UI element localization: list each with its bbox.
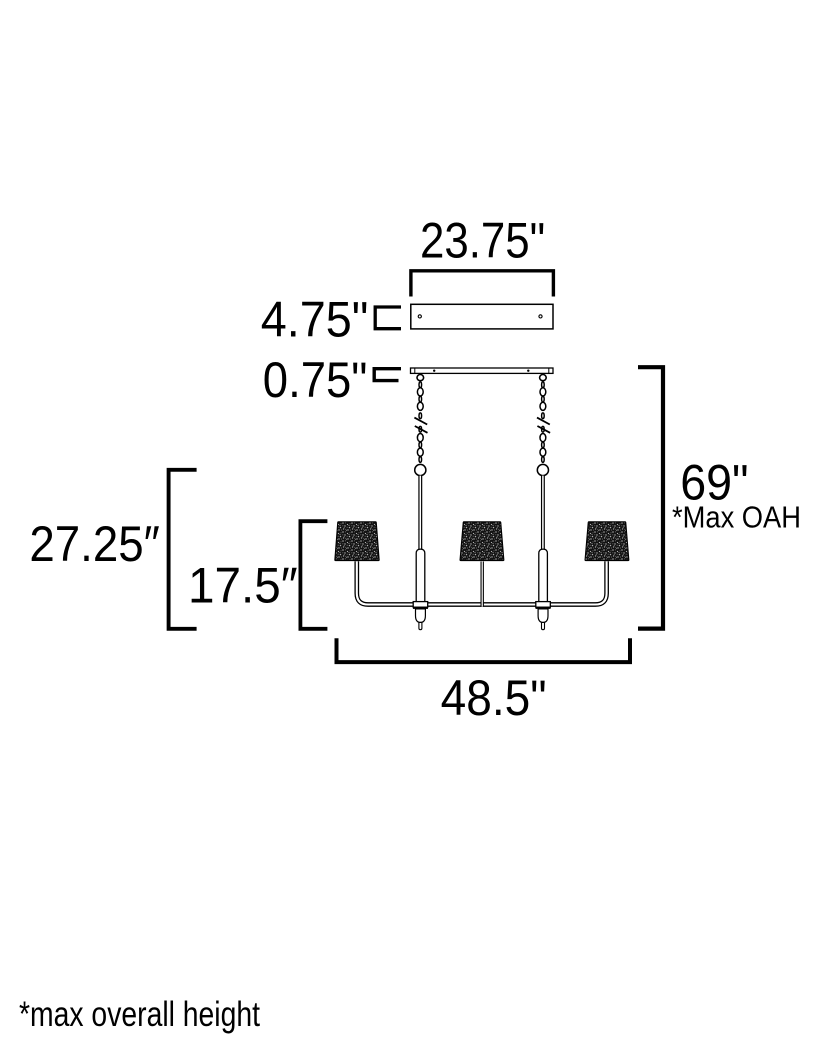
svg-text:4.75": 4.75" <box>261 292 369 348</box>
svg-text:0.75": 0.75" <box>263 352 368 408</box>
svg-text:17.5″: 17.5″ <box>188 558 298 614</box>
svg-text:*Max OAH: *Max OAH <box>672 500 801 535</box>
svg-text:23.75": 23.75" <box>420 213 545 269</box>
svg-text:*max overall height: *max overall height <box>19 995 260 1034</box>
svg-text:48.5": 48.5" <box>441 670 547 726</box>
svg-text:27.25″: 27.25″ <box>29 516 159 572</box>
